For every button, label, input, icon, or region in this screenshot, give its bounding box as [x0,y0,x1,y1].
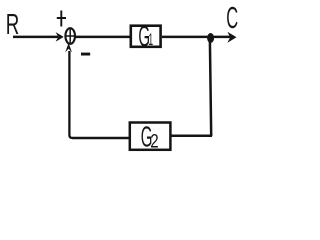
wire node down right side [210,41,211,136]
svg-text:1: 1 [148,30,153,49]
wire summing junction to G1 [75,36,130,39]
wire bottom right to G2 [171,135,212,138]
label G2 [141,120,159,153]
minus sign [81,53,90,56]
junction dot node [207,33,214,43]
summing junction [65,28,75,44]
plus sign [57,11,66,27]
block G1 [131,26,161,47]
arrowhead into summing junction left [56,32,64,42]
wire G1 to output [162,36,234,39]
svg-text:2: 2 [150,130,158,152]
label G1 [138,20,153,53]
wire feedback up left side [69,51,72,138]
block G2 [130,123,171,150]
wire G2 to left [72,137,130,140]
output arrowhead [227,32,236,43]
svg-text:C: C [226,2,238,36]
arrowhead into summing junction bottom [65,43,72,52]
wire R to summing junction [13,36,58,39]
